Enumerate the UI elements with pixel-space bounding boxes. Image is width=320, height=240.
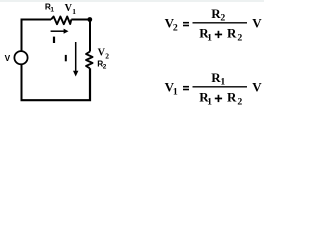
label I (horizontal current) [53, 37, 55, 43]
wire node to R2 [89, 20, 91, 52]
svg-text:2: 2 [237, 97, 242, 108]
resistor R2 [86, 52, 93, 69]
resistor R1 [51, 17, 71, 25]
svg-text:1: 1 [207, 33, 212, 44]
svg-text:2: 2 [173, 23, 178, 34]
svg-text:V: V [252, 15, 262, 30]
svg-text:1: 1 [173, 87, 178, 98]
svg-text:2: 2 [220, 13, 225, 24]
svg-text:R: R [227, 26, 237, 41]
svg-text:V: V [5, 53, 11, 63]
top gray strip [0, 0, 264, 2]
label I (vertical current) [65, 55, 67, 61]
equation V2 = R2/(R1+R2) V [165, 6, 263, 44]
svg-text:1: 1 [72, 7, 76, 16]
svg-text:1: 1 [220, 77, 225, 88]
svg-text:2: 2 [103, 64, 107, 71]
svg-text:V: V [252, 79, 262, 94]
svg-text:2: 2 [105, 51, 109, 60]
svg-text:R: R [227, 90, 237, 105]
equation V1 = R1/(R1+R2) V [165, 70, 263, 108]
svg-text:1: 1 [207, 97, 212, 108]
junction node [87, 17, 92, 22]
wire R2 to bottom [21, 68, 91, 100]
svg-text:2: 2 [237, 33, 242, 44]
wire R1 to node [71, 19, 90, 21]
current arrow I (vertical) [75, 42, 77, 71]
svg-text:1: 1 [50, 6, 54, 13]
wire top-left to R1 [22, 20, 52, 101]
current arrow I (horizontal) [51, 30, 65, 32]
voltage source V [14, 51, 27, 64]
